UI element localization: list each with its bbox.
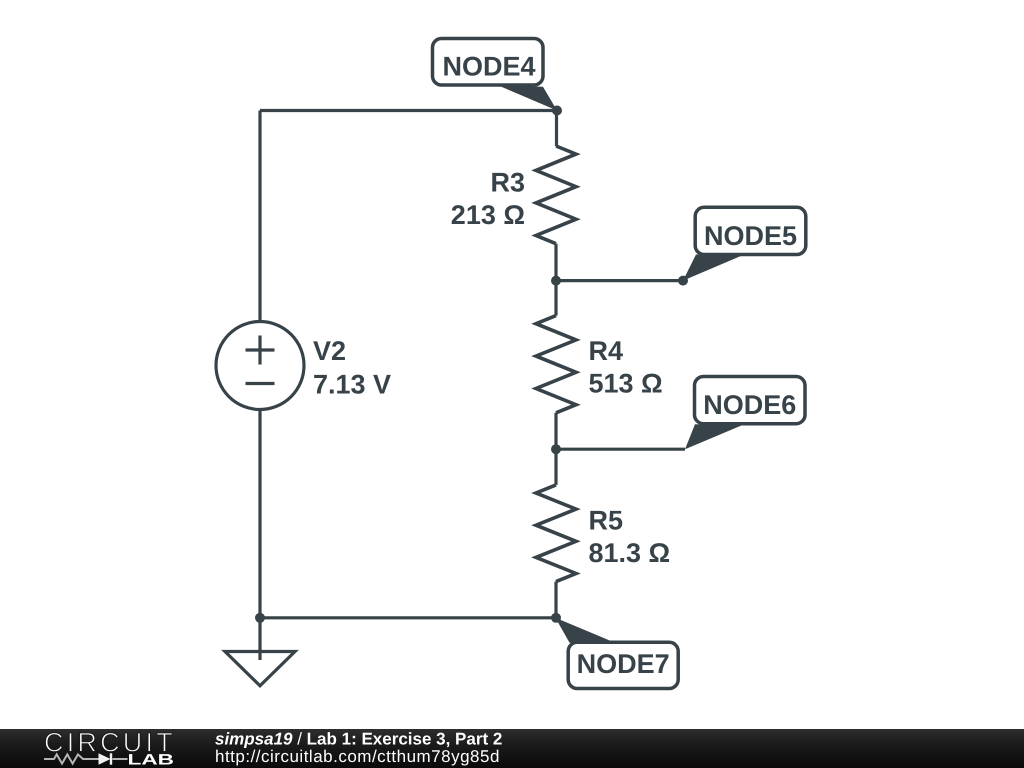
svg-text:http://circuitlab.com/ctthum78: http://circuitlab.com/ctthum78yg85d [215, 747, 500, 766]
svg-text:simpsa19 / Lab 1: Exercise 3,: simpsa19 / Lab 1: Exercise 3, Part 2 [215, 730, 502, 749]
svg-text:R3: R3 [490, 167, 525, 197]
svg-text:213 Ω: 213 Ω [451, 200, 525, 230]
svg-text:LAB: LAB [128, 752, 175, 768]
svg-text:NODE7: NODE7 [577, 649, 670, 679]
svg-text:NODE6: NODE6 [703, 390, 796, 420]
svg-text:81.3 Ω: 81.3 Ω [589, 538, 671, 568]
svg-text:513 Ω: 513 Ω [589, 369, 663, 399]
svg-text:NODE5: NODE5 [704, 221, 797, 251]
svg-text:V2: V2 [313, 336, 346, 366]
svg-text:R4: R4 [589, 336, 624, 366]
svg-text:R5: R5 [589, 506, 624, 536]
svg-text:NODE4: NODE4 [442, 51, 535, 81]
svg-text:7.13 V: 7.13 V [313, 369, 391, 399]
